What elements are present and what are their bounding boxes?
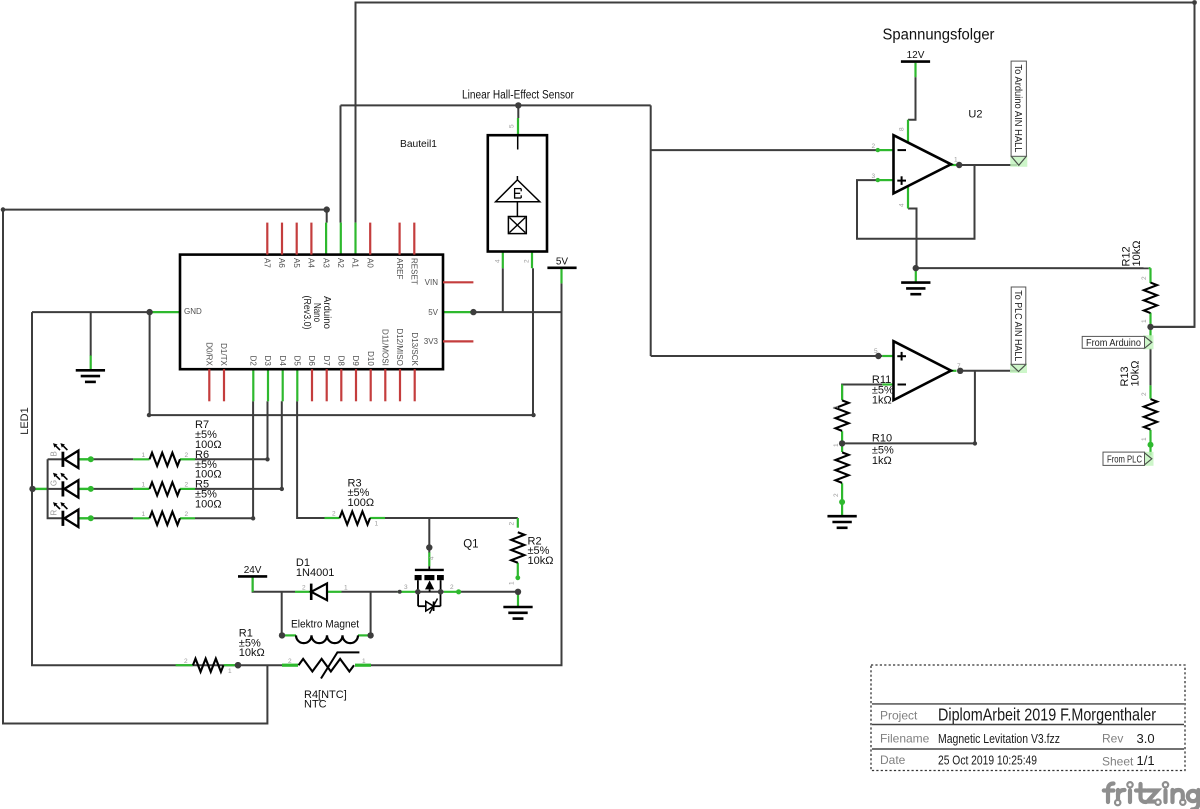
svg-text:12V: 12V <box>907 50 925 61</box>
svg-text:2: 2 <box>184 658 188 665</box>
wire op-amp ground rail to R12 <box>916 267 1149 269</box>
svg-text:1: 1 <box>1141 437 1148 441</box>
svg-text:B: B <box>50 451 59 456</box>
svg-text:G: G <box>50 480 59 486</box>
svg-text:2: 2 <box>1141 392 1148 396</box>
resistor R2 <box>509 522 525 586</box>
svg-text:U2: U2 <box>968 108 982 120</box>
svg-text:10kΩ: 10kΩ <box>528 555 554 567</box>
label R2 <box>528 535 554 567</box>
svg-text:To PLC AIN HALL: To PLC AIN HALL <box>1012 290 1023 361</box>
svg-text:1: 1 <box>142 452 146 459</box>
label R10 <box>872 433 894 468</box>
label Elektro Magnet <box>291 619 359 631</box>
resistor R7 <box>142 452 189 466</box>
svg-text:25 Oct 2019 10:25:49: 25 Oct 2019 10:25:49 <box>938 753 1037 768</box>
svg-text:D0/RX: D0/RX <box>205 342 214 366</box>
svg-text:A2: A2 <box>336 258 345 268</box>
wire LED G row to D4 <box>91 401 284 491</box>
IC U1 Arduino Nano (Rev3.0) <box>180 223 473 402</box>
svg-text:10kΩ: 10kΩ <box>1131 241 1143 267</box>
svg-text:D12/MISO: D12/MISO <box>395 328 404 365</box>
svg-text:24V: 24V <box>244 565 262 576</box>
svg-text:1: 1 <box>1141 319 1148 323</box>
svg-text:Spannungsfolger: Spannungsfolger <box>883 27 995 44</box>
wire Q1 source to R2 foot <box>460 591 518 593</box>
label R12 <box>1121 241 1144 267</box>
svg-text:4: 4 <box>899 203 906 207</box>
label Bauteil1 <box>400 138 437 150</box>
svg-text:2: 2 <box>185 452 189 459</box>
svg-text:LED1: LED1 <box>19 407 31 435</box>
supply 24V <box>238 565 267 577</box>
op-amp U2 (Spannungsfolger) <box>872 127 959 207</box>
svg-text:Date: Date <box>880 753 906 767</box>
svg-text:3: 3 <box>872 173 876 180</box>
svg-text:5V: 5V <box>428 308 438 317</box>
svg-text:D10: D10 <box>366 351 375 366</box>
diode D1 1N4001 <box>302 583 348 600</box>
svg-text:Magnetic Levitation V3.fzz: Magnetic Levitation V3.fzz <box>938 731 1060 746</box>
inductor Elektro Magnet coil <box>296 635 358 643</box>
svg-text:2: 2 <box>1141 276 1148 280</box>
LED LED1 green element <box>50 473 79 498</box>
svg-text:10kΩ: 10kΩ <box>239 647 265 659</box>
label U2 <box>968 108 982 120</box>
svg-text:5V: 5V <box>556 256 569 267</box>
svg-text:1/1: 1/1 <box>1137 753 1155 768</box>
wire 24V to D1 to coil to Q1 row <box>253 578 398 636</box>
svg-text:1kΩ: 1kΩ <box>872 455 892 467</box>
LED LED1 red element <box>50 502 79 527</box>
svg-text:Filename: Filename <box>880 732 930 746</box>
wire A1 to top rail and right rail down to R12/R13 node <box>356 0 1197 327</box>
wire D5 to R3 row <box>297 401 324 518</box>
wire U2 V- to ground rail <box>908 209 917 269</box>
svg-text:2: 2 <box>185 482 189 489</box>
transistor Q1 N-MOSFET <box>398 556 462 614</box>
svg-text:D1/TX: D1/TX <box>219 343 228 366</box>
svg-text:3: 3 <box>404 584 408 591</box>
svg-text:Elektro Magnet: Elektro Magnet <box>291 619 359 631</box>
wire hall sensor node rail (Linear Hall-Effect Sensor net) <box>341 105 651 118</box>
svg-text:3.0: 3.0 <box>1137 731 1155 746</box>
green R12/R13 leads <box>1149 268 1151 455</box>
wire left edge vertical LED1 net <box>3 210 267 724</box>
net label From PLC <box>1103 452 1154 466</box>
svg-text:D5: D5 <box>293 356 302 367</box>
resistor R1 <box>184 658 241 675</box>
svg-text:A0: A0 <box>365 258 374 268</box>
wire A2 drop from hall rail <box>340 105 342 222</box>
wire LED B row to D3 <box>91 401 270 461</box>
label D1 1N4001 <box>296 557 335 579</box>
svg-text:D2: D2 <box>249 356 258 367</box>
svg-text:DiplomArbeit 2019 F.Morgenthal: DiplomArbeit 2019 F.Morgenthaler <box>938 705 1156 725</box>
wire U2 output to label <box>959 164 1017 166</box>
svg-text:D8: D8 <box>337 356 346 367</box>
svg-text:(Rev3.0): (Rev3.0) <box>301 296 312 330</box>
svg-text:1: 1 <box>833 405 840 409</box>
green LED rows and R7/R6/R5 leads <box>33 459 196 518</box>
wire ground stem at Arduino <box>90 312 92 356</box>
svg-text:D9: D9 <box>351 356 360 367</box>
svg-text:5: 5 <box>509 124 516 128</box>
svg-text:3V3: 3V3 <box>424 337 439 346</box>
svg-text:VIN: VIN <box>425 278 439 287</box>
ground near Arduino <box>76 370 105 382</box>
svg-text:2: 2 <box>833 493 840 497</box>
svg-text:2: 2 <box>302 585 306 592</box>
wire follower2 output to label <box>960 370 1017 372</box>
wire R12 node to right rail <box>1151 326 1195 328</box>
wire A3 from left edge <box>1 207 327 222</box>
svg-text:4: 4 <box>429 556 436 560</box>
svg-text:1: 1 <box>142 482 146 489</box>
svg-text:8: 8 <box>899 127 906 131</box>
supply 12V <box>901 50 930 62</box>
label R1 <box>239 627 265 659</box>
svg-text:2: 2 <box>450 584 454 591</box>
svg-text:1: 1 <box>375 521 379 528</box>
ground at U2 <box>901 283 930 295</box>
green connected pins of Arduino <box>150 223 473 402</box>
svg-text:1: 1 <box>142 511 146 518</box>
wire hall node to U2 inverting input <box>651 149 878 151</box>
wire R11 to inverting input <box>842 385 882 401</box>
wire U2 feedback loop output to non-inverting input <box>857 165 975 239</box>
svg-text:Rev: Rev <box>1102 732 1123 746</box>
svg-text:A6: A6 <box>277 258 286 268</box>
svg-text:A4: A4 <box>307 258 316 268</box>
supply 5V <box>547 256 576 268</box>
wire follower2 feedback to R10/R11 <box>842 371 977 446</box>
label Q1 <box>463 539 478 551</box>
svg-text:100Ω: 100Ω <box>195 498 222 510</box>
wire hall rail down right side to op-amp inputs <box>650 105 652 356</box>
svg-text:Q1: Q1 <box>463 539 478 551</box>
net label To PLC AIN HALL <box>1010 287 1027 373</box>
sensor Bauteil1 Linear Hall-Effect Sensor <box>488 135 547 251</box>
svg-text:R: R <box>50 510 59 516</box>
svg-text:2: 2 <box>509 522 516 526</box>
wire 5V rail from Arduino to hall and NTC <box>371 268 562 665</box>
svg-text:1: 1 <box>509 581 516 585</box>
svg-text:D6: D6 <box>307 356 316 367</box>
ground at Q1/R2 <box>503 607 532 619</box>
wire GND pin to left branch <box>32 311 150 313</box>
svg-text:Sheet: Sheet <box>1102 755 1134 769</box>
wire R1 row <box>238 664 282 666</box>
svg-text:D11/MOSI: D11/MOSI <box>381 329 390 366</box>
svg-text:D13/SCK: D13/SCK <box>410 332 419 366</box>
wire hall node to follower2 non-inverting input <box>651 355 883 357</box>
green U2 pins / 12V stem / U2 ground stem <box>876 63 960 282</box>
svg-text:100Ω: 100Ω <box>348 497 375 509</box>
title block <box>871 665 1185 771</box>
LED LED1 blue element <box>50 443 79 468</box>
hall pin numbers <box>495 124 531 263</box>
svg-text:A7: A7 <box>263 258 272 268</box>
svg-text:2: 2 <box>185 511 189 518</box>
green follower2 pins and R11/R10 leads <box>842 356 956 515</box>
op-amp follower to PLC <box>874 341 961 400</box>
svg-text:From Arduino: From Arduino <box>1086 338 1141 349</box>
resistor R5 <box>142 511 189 525</box>
svg-text:A3: A3 <box>321 258 330 268</box>
svg-text:2: 2 <box>332 511 336 518</box>
svg-text:1kΩ: 1kΩ <box>872 395 892 407</box>
ground at R10 <box>827 516 856 528</box>
label R4[NTC] <box>304 689 347 711</box>
green wire endpoint dots <box>88 442 1154 522</box>
svg-text:RESET: RESET <box>410 258 419 285</box>
svg-text:2: 2 <box>288 658 292 665</box>
green leads R3 R1 R4 D1 coil 24V <box>176 518 385 665</box>
label R11 <box>872 374 894 406</box>
wire From-Arduino node down to R13 <box>1150 348 1152 385</box>
svg-text:From PLC: From PLC <box>1107 454 1142 465</box>
svg-text:D4: D4 <box>278 356 287 367</box>
resistor R10 <box>833 443 849 497</box>
svg-text:NTC: NTC <box>304 699 327 711</box>
svg-text:A1: A1 <box>351 258 360 268</box>
label Linear Hall-Effect Sensor <box>462 90 574 102</box>
labels R7 R6 R5 values <box>195 419 222 510</box>
svg-text:GND: GND <box>184 307 202 316</box>
svg-text:4: 4 <box>495 259 502 263</box>
label Spannungsfolger <box>883 27 995 44</box>
wire 12V drop to U2 V+ <box>908 77 916 120</box>
svg-text:Linear Hall-Effect Sensor: Linear Hall-Effect Sensor <box>462 90 574 102</box>
net label To Arduino AIN HALL <box>1010 61 1027 167</box>
resistor R13 <box>1141 392 1157 441</box>
svg-text:2: 2 <box>524 259 531 263</box>
svg-text:1: 1 <box>344 585 348 592</box>
resistor R6 <box>142 482 189 496</box>
svg-text:1: 1 <box>228 668 232 675</box>
svg-text:1: 1 <box>362 658 366 665</box>
svg-text:Bauteil1: Bauteil1 <box>400 138 437 150</box>
wire LED R row to D2 <box>91 401 256 520</box>
thermistor R4 NTC <box>288 652 366 678</box>
svg-text:AREF: AREF <box>395 258 404 279</box>
LED1 common bracket <box>48 459 62 518</box>
svg-text:Project: Project <box>880 709 918 723</box>
resistor R3 <box>332 511 379 528</box>
label R3 <box>348 477 375 509</box>
svg-text:1N4001: 1N4001 <box>296 567 335 579</box>
fritzing logo <box>1104 782 1199 809</box>
wire GND branch down to hall GND rail <box>147 268 536 417</box>
svg-text:10kΩ: 10kΩ <box>1130 361 1142 387</box>
label R13 <box>1119 361 1142 387</box>
svg-text:R10: R10 <box>872 433 892 445</box>
resistor R11 <box>833 400 849 431</box>
green Q1 pins / R2 leads / ground stems <box>91 356 520 607</box>
net label From Arduino <box>1082 335 1153 349</box>
wire GND/LED cathode vertical <box>32 312 238 665</box>
green hall sensor pins and 5V stem <box>503 118 562 283</box>
svg-text:To Arduino AIN HALL: To Arduino AIN HALL <box>1012 65 1023 153</box>
wire R3 to Q1 gate and R2 top <box>385 518 518 553</box>
svg-text:A5: A5 <box>292 258 301 268</box>
svg-text:D3: D3 <box>263 356 272 367</box>
svg-text:2: 2 <box>872 143 876 150</box>
svg-text:D7: D7 <box>322 356 331 367</box>
resistor R12 <box>1141 276 1157 323</box>
label LED1 <box>19 407 31 435</box>
